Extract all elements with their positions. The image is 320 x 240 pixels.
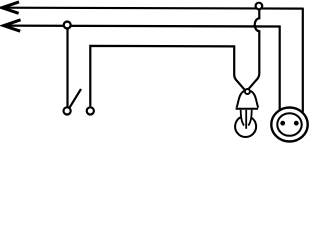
lamp E1 suspension knob — [245, 89, 250, 94]
wire L1 right drop (down to socket) — [302, 8, 304, 112]
wire L2 (second line, horizontal) — [3, 24, 279, 27]
lamp E1 bulb glass (circle open at top under the cap) — [235, 117, 256, 137]
wire L2 right drop (down to socket) — [279, 25, 281, 110]
wire L1 (top phase line, horizontal) — [2, 7, 303, 10]
switch S1 right contact — [87, 107, 94, 114]
arrow A1 (left arrowhead of top line) — [2, 2, 19, 13]
socket X1 left pin hole — [280, 121, 285, 126]
lamp E1 holder rim — [236, 108, 259, 110]
lamp E1 holder bell right side — [251, 91, 259, 108]
node A (junction circle on top line) — [256, 3, 263, 10]
lamp E1 filament right — [248, 110, 251, 126]
arrow A2 (left arrowhead of second line) — [4, 20, 21, 31]
socket X1 inner circle — [277, 113, 301, 136]
wire L3 (switched line: switch right contact up, across, down to lamp knob) — [90, 46, 244, 107]
lamp E1 filament middle — [245, 110, 247, 129]
node B (junction circle on second line) — [64, 22, 71, 29]
wire from node B down to switch — [66, 27, 68, 107]
socket X1 right pin hole — [294, 121, 299, 126]
switch S1 lever — [69, 89, 81, 108]
socket X1 outer circle — [271, 108, 307, 142]
wire from node A down to lamp (hop over L2, bend to lamp knob) — [249, 9, 259, 89]
lamp E1 holder bell left side — [237, 91, 245, 108]
lamp E1 filament left — [241, 110, 244, 126]
switch S1 left contact — [64, 107, 71, 114]
